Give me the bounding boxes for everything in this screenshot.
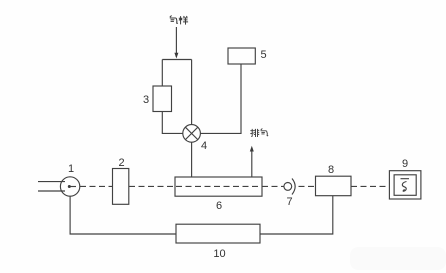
label 气样 (gas sample) bbox=[170, 15, 188, 24]
box 8 bbox=[316, 176, 352, 196]
label 排气 (exhaust) bbox=[250, 128, 268, 136]
wire: dashed box2 to box6 bbox=[129, 185, 175, 187]
svg-text:7: 7 bbox=[286, 196, 292, 208]
wire: dashed line through box 6 bbox=[176, 185, 262, 187]
svg-text:1: 1 bbox=[68, 163, 74, 175]
wire: circle1 down to bottom loop bbox=[70, 196, 176, 234]
wire: sample inlet vertical with arrowhead bbox=[175, 27, 177, 57]
box 3 (restrictor) bbox=[153, 86, 172, 112]
svg-text:3: 3 bbox=[143, 94, 149, 106]
wire: valve 4 bottom down to column 6 bbox=[191, 142, 193, 177]
wire: dashed comp7 to box8 bbox=[299, 185, 316, 187]
wire: exhaust arrow up from column 6 bbox=[251, 150, 253, 177]
recorder squiggle bbox=[401, 179, 410, 192]
box 9 (recorder, double square) bbox=[389, 171, 421, 199]
box 10 bbox=[176, 224, 260, 243]
svg-text:10: 10 bbox=[213, 248, 225, 260]
burner/detector 1 inlet wires bbox=[38, 182, 65, 191]
wire: right branch down to valve 4 top bbox=[191, 60, 193, 125]
box 5 bbox=[228, 48, 255, 64]
wire: dashed main line circle1 to box2 bbox=[80, 185, 113, 187]
component 1 (circle with dot) bbox=[60, 177, 79, 196]
wire: left branch down to box 3 bbox=[161, 60, 163, 87]
valve 4 (circle with X) bbox=[183, 125, 201, 143]
svg-text:9: 9 bbox=[402, 158, 408, 170]
wire: dashed box8 to box9 bbox=[351, 185, 389, 187]
node: split junction / loop top bbox=[162, 59, 191, 61]
wire: dashed box6 to component 7 bbox=[262, 185, 284, 187]
box 6 (column) bbox=[175, 177, 262, 196]
wire: box10 right to box8 bottom bbox=[260, 196, 333, 234]
wire: valve 4 right to riser up to box 5 bbox=[200, 64, 241, 133]
wire: box 3 to valve 4 left bbox=[162, 112, 183, 134]
box 2 bbox=[113, 169, 129, 205]
svg-text:4: 4 bbox=[201, 140, 207, 152]
svg-text:2: 2 bbox=[118, 157, 124, 169]
svg-text:5: 5 bbox=[260, 49, 266, 61]
component 7 (circle + arc) bbox=[284, 183, 292, 191]
svg-text:6: 6 bbox=[216, 200, 222, 212]
svg-text:8: 8 bbox=[328, 164, 334, 176]
